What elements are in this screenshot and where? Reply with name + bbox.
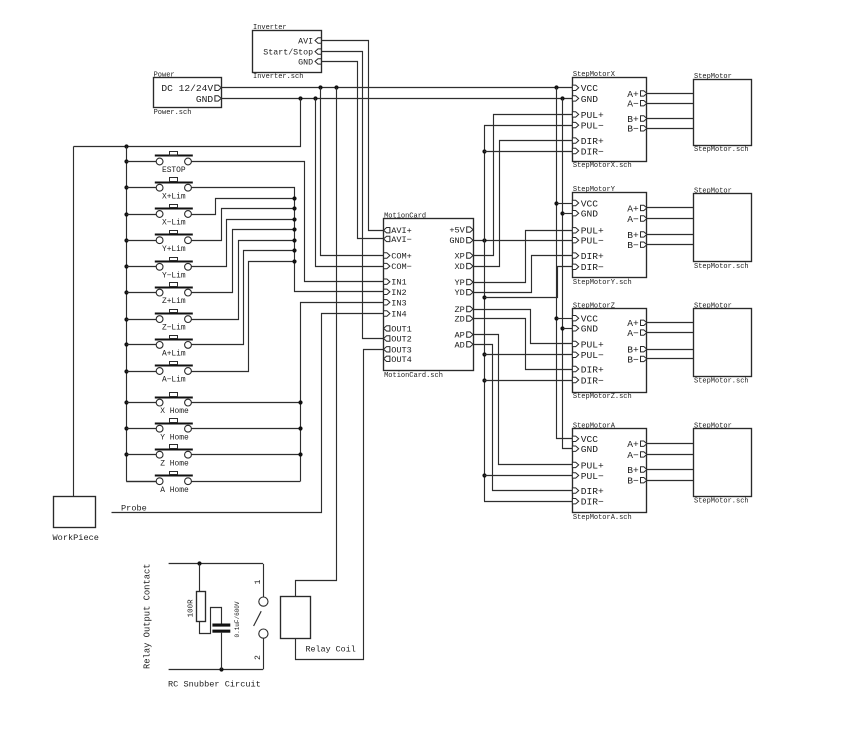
wire contact bottom lead [263,638,265,669]
node RC Snubber Circuit label [168,680,261,690]
svg-text:DIR+: DIR+ [581,486,604,497]
junction GNDD / Z DIR- [482,378,486,382]
svg-text:COM−: COM− [391,262,412,272]
svg-text:PUL−: PUL− [581,121,604,132]
junction GND bus / workpiece drop [298,96,302,100]
wire Z B− driver to motor [647,358,694,360]
junction limits common / Z−Lim [292,238,296,242]
wire resistor to capacitor zigzag [200,608,222,634]
svg-text:AD: AD [454,340,464,350]
svg-text:StepMotorA.sch: StepMotorA.sch [573,514,632,522]
wire X+Lim to limits common / IN2 [192,188,384,292]
svg-text:DIR+: DIR+ [581,136,604,147]
junction GNDD / Y DIR- branch [482,295,486,299]
wire A−Lim to limits common [192,262,295,372]
svg-text:ESTOP: ESTOP [162,166,186,175]
svg-text:Z−Lim: Z−Lim [162,324,186,333]
svg-text:B−: B− [627,240,639,251]
svg-text:MotionCard.sch: MotionCard.sch [384,372,443,380]
node Probe label [121,504,147,514]
svg-text:Start/Stop: Start/Stop [263,48,313,58]
hierarchical sheet StepMotor (StepMotor.sch) motor for axis X [694,73,752,154]
junction GNDD / X DIR- [482,149,486,153]
wire ZP net [474,310,573,344]
svg-text:B−: B− [627,354,639,365]
svg-text:OUT2: OUT2 [391,335,412,345]
svg-text:MotionCard: MotionCard [384,213,426,221]
svg-text:GND: GND [298,58,313,67]
svg-text:A Home: A Home [160,486,189,495]
svg-text:B−: B− [627,124,639,135]
svg-text:OUT3: OUT3 [391,345,412,355]
svg-text:AP: AP [454,331,464,341]
switch X Home (push button) [126,393,193,417]
svg-text:StepMotorZ.sch: StepMotorZ.sch [573,393,632,401]
relay contact terminal 2 [259,629,268,638]
wire XP net [474,115,573,256]
capacitor 0.1uF/600V plates [212,601,241,637]
wire ESTOP to IN1 [192,162,384,282]
wire Y+Lim to limits common [192,209,295,241]
svg-text:OUT1: OUT1 [391,324,412,334]
resistor 100R [188,592,206,622]
switch X+Lim (push button) [126,178,193,202]
svg-text:ZD: ZD [454,315,464,325]
wire contact top lead [263,564,265,597]
svg-text:IN2: IN2 [391,288,406,298]
junction limits common / Y−Lim [292,217,296,221]
relay coil RLY1 [281,597,356,655]
svg-text:StepMotor.sch: StepMotor.sch [694,498,749,506]
junction GND bus / GND vertical [560,96,564,100]
junction GNDD / A PUL- [482,473,486,477]
svg-text:Power.sch: Power.sch [154,109,192,117]
svg-text:+5V: +5V [449,226,465,236]
junction DC bus / VCC vertical [554,85,558,89]
wire Y−Lim to limits common [192,220,295,267]
svg-text:StepMotor: StepMotor [694,422,732,430]
wire Probe to IN4 [112,314,384,513]
junction homes common / Z Home [298,452,302,456]
wire resistor top lead [199,564,201,591]
svg-text:WorkPiece: WorkPiece [53,533,99,543]
svg-text:DIR−: DIR− [581,146,604,157]
junction bus / X Home [124,400,128,404]
svg-text:StepMotor.sch: StepMotor.sch [694,377,749,385]
hierarchical sheet Inverter (Inverter.sch) with pins AVI, Start/Stop, GND [253,24,322,81]
svg-text:0.1uF/600V: 0.1uF/600V [234,601,241,637]
switch ESTOP (push button) [126,152,193,176]
relay contact blade [254,611,262,626]
junction bus / A+Lim [124,342,128,346]
wire GNDD to Y DIR- [485,267,573,298]
wire left switch bus [126,147,128,482]
wire YP net [474,231,573,283]
hierarchical sheet StepMotorA (StepMotorA.sch) stepper driver [572,423,646,522]
wire ZD net [474,319,573,370]
svg-text:Z+Lim: Z+Lim [162,297,186,306]
svg-text:PUL−: PUL− [581,236,604,247]
node Relay Output Contact label [143,563,153,669]
svg-text:Relay Coil: Relay Coil [306,645,356,655]
svg-text:StepMotorX.sch: StepMotorX.sch [573,162,632,170]
svg-text:XD: XD [454,262,464,272]
wire Z B+ driver to motor [647,349,694,351]
wire Y A− driver to motor [647,218,694,220]
svg-text:GND: GND [581,324,599,335]
svg-text:Power: Power [154,72,175,80]
svg-text:COM+: COM+ [391,252,412,262]
svg-text:A−: A− [627,214,639,225]
svg-text:StepMotor: StepMotor [694,73,732,81]
junction bus / A−Lim [124,369,128,373]
svg-text:PUL+: PUL+ [581,110,604,121]
wire GND drop to COM- [316,99,384,267]
wire WorkPiece riser [73,147,75,497]
svg-text:YP: YP [454,278,464,288]
wire GNDD to X PUL- [484,125,572,127]
hierarchical sheet Power (Power.sch) with pins DC 12/24V, GND [154,72,222,117]
svg-text:GND: GND [196,94,214,105]
svg-text:GND: GND [581,94,599,105]
wire Y Home to homes common [191,428,300,430]
junction limits common / Z+Lim [292,227,296,231]
wire AD net [474,345,573,491]
svg-text:YD: YD [454,288,464,298]
switch Y Home (push button) [126,419,193,443]
junction homes common / X Home [298,400,302,404]
pin 1 label [254,580,263,585]
wire Y B+ driver to motor [647,234,694,236]
svg-text:B−: B− [627,476,639,487]
wire X B+ driver to motor [647,118,694,120]
wire VCC vertical to drivers [557,88,573,439]
wire X−Lim to limits common [192,199,295,215]
junction bus / Y Home [124,426,128,430]
wire capacitor bottom lead [221,633,223,670]
svg-text:StepMotor: StepMotor [694,188,732,196]
switch Y+Lim (push button) [126,231,193,254]
junction bus / X+Lim [124,185,128,189]
svg-text:100R: 100R [188,599,196,618]
pin 2 label [254,655,263,660]
svg-text:DIR+: DIR+ [581,364,604,375]
wire DC 12/24V bus from Power to StepMotorX VCC [221,87,572,89]
svg-text:StepMotorY: StepMotorY [573,186,616,194]
svg-text:X−Lim: X−Lim [162,219,186,228]
wire GNDD to X DIR- [484,151,572,153]
junction DC bus / relay drop [334,85,338,89]
junction GND / StepMotorZ [560,326,564,330]
junction homes common / Y Home [298,426,302,430]
svg-text:Y Home: Y Home [160,433,189,442]
svg-text:Y−Lim: Y−Lim [162,271,186,280]
hierarchical sheet MotionCard (MotionCard.sch) with pins AVI+/-, COM+/-, IN1-4, OUT1-4, +5V, GND, XP/XD/YP/YD/ZP/ZD/AP/AD [384,213,474,380]
relay contact terminal 1 [259,597,268,606]
junction bus / Y−Lim [124,264,128,268]
svg-text:A−Lim: A−Lim [162,376,186,385]
svg-text:RC Snubber Circuit: RC Snubber Circuit [168,680,261,690]
wire A B+ driver to motor [647,469,694,471]
wire XD net [474,141,573,267]
svg-text:StepMotor.sch: StepMotor.sch [694,146,749,154]
wire GNDD vertical [484,125,486,501]
switch A−Lim (push button) [126,362,193,385]
switch Z+Lim (push button) [126,283,193,307]
hierarchical sheet StepMotor (StepMotor.sch) motor for axis A [694,422,752,505]
svg-text:IN3: IN3 [391,298,406,308]
wire GND tap StepMotorZ [563,328,573,330]
junction bus / Z+Lim [124,290,128,294]
junction VCC / StepMotorY [554,201,558,205]
junction VCC / StepMotorZ [554,316,558,320]
svg-text:X Home: X Home [160,407,189,416]
hierarchical sheet StepMotor (StepMotor.sch) motor for axis Z [694,302,752,385]
svg-text:DIR+: DIR+ [581,251,604,262]
svg-text:ZP: ZP [454,305,464,315]
junction switch-bus top [124,144,128,148]
svg-text:StepMotorY.sch: StepMotorY.sch [573,279,632,287]
junction top rail / resistor [197,561,201,565]
wire YD net [474,256,573,293]
wire GND tap StepMotorY [563,213,573,215]
svg-text:PUL−: PUL− [581,350,604,361]
wire DC to relay coil + [296,88,337,597]
svg-text:IN4: IN4 [391,310,406,320]
wire VCC tap StepMotorY [557,203,573,205]
wire GNDD to Z DIR- [484,380,572,382]
svg-text:StepMotor.sch: StepMotor.sch [694,263,749,271]
svg-text:Inverter: Inverter [253,24,287,32]
wire Y B− driver to motor [647,244,694,246]
svg-text:X+Lim: X+Lim [162,192,186,201]
junction bus / ESTOP [124,159,128,163]
svg-text:PUL+: PUL+ [581,460,604,471]
junction DC bus / COM+ drop [318,85,322,89]
svg-text:GND: GND [581,209,599,220]
svg-text:StepMotor: StepMotor [694,302,732,310]
wire A Home to homes common [191,481,300,483]
svg-text:1: 1 [254,580,263,585]
svg-text:B+: B+ [627,465,639,476]
svg-text:OUT4: OUT4 [391,355,412,365]
svg-text:AVI−: AVI− [391,235,412,245]
wire A A− driver to motor [647,454,694,456]
wire Inverter Start/Stop to MotionCard OUT2 [322,52,384,339]
wire A B− driver to motor [647,480,694,482]
wire A+Lim to limits common [192,251,295,345]
hierarchical sheet StepMotorY (StepMotorY.sch) stepper driver [572,186,646,287]
hierarchical sheet StepMotor (StepMotor.sch) motor for axis Y [694,188,752,271]
svg-text:Y+Lim: Y+Lim [162,245,186,254]
svg-text:GND: GND [449,236,464,246]
wire GND bus from Power to StepMotorX GND [221,98,572,100]
wire GNDD to A DIR- [484,501,572,503]
wire VCC tap StepMotorZ [557,318,573,320]
switch Z−Lim (push button) [126,310,193,333]
svg-text:DC 12/24V: DC 12/24V [161,83,213,94]
svg-text:DIR−: DIR− [581,497,604,508]
wire Z+Lim to limits common [192,230,295,293]
junction bus / Y+Lim [124,238,128,242]
wire Inverter AVI to MotionCard AVI+ [322,41,384,231]
svg-text:PUL+: PUL+ [581,339,604,350]
wire relay top rail [169,563,264,565]
junction GNDD / vertical [482,238,486,242]
wire Z Home to homes common [191,454,300,456]
svg-text:A−: A− [627,328,639,339]
svg-text:A+: A+ [627,203,639,214]
junction limits common / A−Lim [292,259,296,263]
svg-text:DIR−: DIR− [581,375,604,386]
wire A A+ driver to motor [647,443,694,445]
junction limits common / X−Lim [292,196,296,200]
junction bus / Z Home [124,452,128,456]
junction GND bus / COM- drop [313,96,317,100]
wire Inverter GND to MotionCard AVI- [322,62,384,239]
svg-text:DIR−: DIR− [581,262,604,273]
wire X Home to homes common [191,402,300,404]
junction bottom rail / capacitor [219,667,223,671]
junction GNDD / Z PUL- [482,352,486,356]
junction GND / StepMotorY [560,211,564,215]
wire X A− driver to motor [647,103,694,105]
hierarchical sheet StepMotorX (StepMotorX.sch) stepper driver [572,71,646,170]
svg-text:GND: GND [581,444,599,455]
svg-text:Inverter.sch: Inverter.sch [253,73,303,81]
svg-text:A−: A− [627,450,639,461]
node WorkPiece box [53,497,99,544]
svg-text:Z Home: Z Home [160,459,189,468]
wire GND vertical to drivers [563,99,573,449]
wire DC drop to COM+ [321,88,384,256]
junction bus / Z−Lim [124,317,128,321]
hierarchical sheet StepMotorZ (StepMotorZ.sch) stepper driver [572,302,646,401]
svg-text:A−: A− [627,99,639,110]
svg-text:2: 2 [254,655,263,660]
svg-text:XP: XP [454,252,464,262]
svg-text:StepMotorA: StepMotorA [573,423,616,431]
svg-text:PUL−: PUL− [581,471,604,482]
wire relay coil - to OUT3 [296,350,384,660]
svg-text:Relay Output Contact: Relay Output Contact [143,563,153,669]
switch A Home (push button) [126,472,193,495]
wire GNDD to A PUL- [484,475,572,477]
svg-text:StepMotorX: StepMotorX [573,71,616,79]
wire X B− driver to motor [647,128,694,130]
svg-text:VCC: VCC [581,83,599,94]
wire GNDD horizontal to StepMotorY PUL- [473,240,572,242]
junction bus / X−Lim [124,212,128,216]
wire GNDD to Z PUL- [484,354,572,356]
switch Y−Lim (push button) [126,258,193,281]
wire bus to A Home [126,481,156,483]
svg-text:AVI: AVI [298,38,313,47]
wire Z−Lim to limits common [192,241,295,320]
junction limits common / A+Lim [292,248,296,252]
wire Y A+ driver to motor [647,207,694,209]
switch X−Lim (push button) [126,205,193,228]
wire Z A+ driver to motor [647,322,694,324]
wire relay bottom rail [169,669,264,671]
wire homes common to IN3 [301,303,384,482]
switch Z Home (push button) [126,445,193,469]
svg-text:StepMotorZ: StepMotorZ [573,302,615,310]
wire AP net [474,335,573,465]
switch A+Lim (push button) [126,336,193,359]
wire Z A− driver to motor [647,332,694,334]
wire GND drop to switch rail [74,99,301,147]
svg-text:IN1: IN1 [391,278,406,288]
svg-text:A+Lim: A+Lim [162,350,186,359]
svg-text:A+: A+ [627,439,639,450]
junction limits common / Y+Lim [292,206,296,210]
wire X A+ driver to motor [647,93,694,95]
